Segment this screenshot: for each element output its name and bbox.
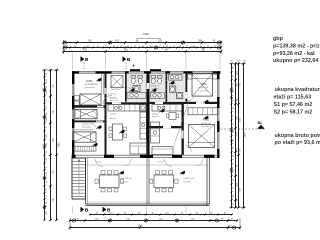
svg-text:+ SPREMIŠTE: + SPREMIŠTE [83,83,98,86]
svg-text:B1: B1 [258,121,262,125]
svg-text:p=58,17 m2: p=58,17 m2 [184,178,196,180]
svg-text:dnevni b.: dnevni b. [109,118,117,120]
svg-text:p=4,6 m2: p=4,6 m2 [110,100,118,102]
svg-text:p=10,25 m2: p=10,25 m2 [82,123,94,125]
svg-text:1157: 1157 [95,219,100,221]
svg-text:dnevni b.: dnevni b. [152,116,160,118]
svg-text:1993: 1993 [143,32,149,36]
svg-text:kuhinja: kuhinja [110,114,117,116]
svg-text:ukupno p= 232,64 m2: ukupno p= 232,64 m2 [273,58,320,64]
svg-text:ter. ploče: ter. ploče [184,180,191,183]
svg-text:1460: 1460 [245,132,247,138]
svg-text:(za predn.): (za predn.) [201,125,211,128]
svg-text:p=93,26 m2 - kat: p=93,26 m2 - kat [273,51,315,57]
svg-text:gbp: gbp [273,36,284,42]
svg-text:ukupna bruto povr: ukupna bruto povr [275,133,320,139]
svg-text:po etaži p= 93,6 m: po etaži p= 93,6 m [275,140,320,146]
svg-text:SOBA: SOBA [201,83,208,86]
svg-text:B: B [127,57,131,63]
svg-text:p=139,38 m2 - prizemlje: p=139,38 m2 - prizemlje [273,43,320,49]
svg-text:kupaonica: kupaonica [129,88,139,90]
svg-text:p=3,1 m2: p=3,1 m2 [170,86,177,88]
svg-text:(za predn.): (za predn.) [85,86,95,89]
svg-text:S2 p= 58,17 m2: S2 p= 58,17 m2 [274,109,313,115]
svg-text:SOBA: SOBA [86,80,93,83]
svg-text:garderoba: garderoba [108,94,116,96]
svg-text:(za predn.): (za predn.) [82,126,92,129]
svg-text:p=13,9 m2: p=13,9 m2 [199,87,209,89]
svg-text:ukupna kvadratura: ukupna kvadratura [275,87,320,93]
svg-text:88: 88 [243,61,245,63]
svg-text:1460: 1460 [59,142,61,148]
svg-text:etaži p= 115,63: etaži p= 115,63 [274,95,312,101]
svg-text:p=57,46 m2: p=57,46 m2 [121,178,133,180]
svg-text:93: 93 [230,61,232,63]
svg-text:B: B [107,208,111,214]
svg-text:1157: 1157 [191,219,196,221]
svg-text:ter. ploče: ter. ploče [121,180,128,183]
svg-text:B: B [85,208,89,214]
svg-text:S1 p= 57,46 m2: S1 p= 57,46 m2 [274,102,313,108]
svg-text:1640: 1640 [137,226,143,228]
svg-text:B: B [85,57,89,63]
svg-text:357: 357 [236,61,239,63]
svg-text:(za predn.): (za predn.) [199,89,209,92]
